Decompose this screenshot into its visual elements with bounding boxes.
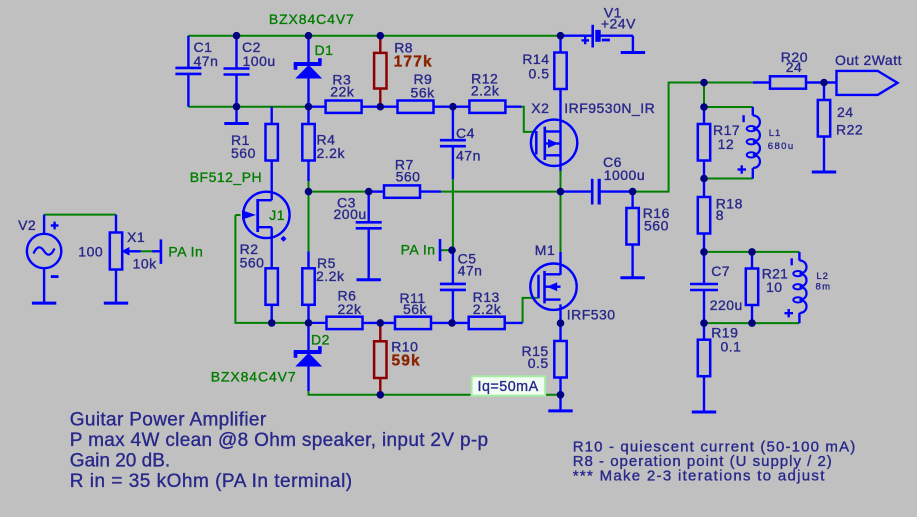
svg-text:L1: L1 <box>769 128 782 139</box>
svg-text:C7: C7 <box>711 263 730 279</box>
svg-text:680u: 680u <box>768 141 795 152</box>
svg-text:10k: 10k <box>133 256 158 272</box>
svg-text:PA In: PA In <box>401 242 436 258</box>
svg-text:Gain 20 dB.: Gain 20 dB. <box>70 451 170 472</box>
svg-text:100: 100 <box>78 244 103 260</box>
svg-text:2.2k: 2.2k <box>317 145 346 161</box>
svg-text:Guitar Power Amplifier: Guitar Power Amplifier <box>70 410 267 431</box>
svg-text:L2: L2 <box>816 271 829 282</box>
svg-text:J1: J1 <box>269 207 285 223</box>
svg-text:Iq=50mA: Iq=50mA <box>478 379 539 395</box>
svg-text:0.5: 0.5 <box>528 355 549 371</box>
svg-text:10: 10 <box>766 279 783 295</box>
svg-text:56k: 56k <box>411 84 436 100</box>
svg-text:1000u: 1000u <box>604 167 645 183</box>
svg-text:24: 24 <box>786 59 803 75</box>
svg-text:+24V: +24V <box>601 15 636 31</box>
svg-text:2.2k: 2.2k <box>471 82 500 98</box>
svg-text:IRF9530N_IR: IRF9530N_IR <box>564 100 655 116</box>
svg-text:2.2k: 2.2k <box>473 301 502 317</box>
svg-text:C4: C4 <box>456 125 475 141</box>
svg-text:8m: 8m <box>816 282 832 293</box>
svg-text:220u: 220u <box>710 297 743 313</box>
svg-text:2.2k: 2.2k <box>316 268 345 284</box>
svg-text:560: 560 <box>644 218 669 234</box>
svg-text:*** Make 2-3 iterations to adj: *** Make 2-3 iterations to adjust <box>573 468 826 485</box>
svg-text:12: 12 <box>718 136 735 152</box>
svg-text:D1: D1 <box>315 42 334 58</box>
svg-text:R in = 35 kOhm (PA In terminal: R in = 35 kOhm (PA In terminal) <box>70 471 353 492</box>
svg-text:M1: M1 <box>535 242 555 258</box>
svg-text:24: 24 <box>837 104 854 120</box>
svg-text:R22: R22 <box>836 122 863 138</box>
svg-text:560: 560 <box>396 168 421 184</box>
svg-text:Out 2Watt: Out 2Watt <box>835 52 902 68</box>
svg-text:X2: X2 <box>531 100 549 116</box>
svg-text:0.1: 0.1 <box>721 339 742 355</box>
svg-text:8: 8 <box>716 207 724 223</box>
svg-text:BZX84C4V7: BZX84C4V7 <box>211 369 297 385</box>
svg-text:560: 560 <box>231 145 256 161</box>
svg-text:177k: 177k <box>394 53 433 70</box>
svg-text:560: 560 <box>240 255 265 271</box>
svg-text:IRF530: IRF530 <box>567 307 616 323</box>
svg-text:X1: X1 <box>127 229 145 245</box>
svg-text:56k: 56k <box>403 301 428 317</box>
svg-text:47n: 47n <box>456 147 481 163</box>
svg-text:22k: 22k <box>337 301 362 317</box>
svg-text:BZX84C4V7: BZX84C4V7 <box>269 11 355 27</box>
svg-text:V2: V2 <box>18 217 36 233</box>
svg-text:P max 4W clean @8 Ohm speaker,: P max 4W clean @8 Ohm speaker, input 2V … <box>70 430 489 451</box>
svg-text:22k: 22k <box>330 84 355 100</box>
svg-text:59k: 59k <box>392 352 421 369</box>
svg-text:100u: 100u <box>243 53 276 69</box>
svg-text:200u: 200u <box>334 206 367 222</box>
svg-text:47n: 47n <box>458 263 483 279</box>
svg-text:BF512_PH: BF512_PH <box>190 169 262 185</box>
svg-text:0.5: 0.5 <box>529 66 550 82</box>
svg-text:D2: D2 <box>311 332 330 348</box>
svg-text:47n: 47n <box>194 53 219 69</box>
svg-text:PA In: PA In <box>168 244 203 260</box>
